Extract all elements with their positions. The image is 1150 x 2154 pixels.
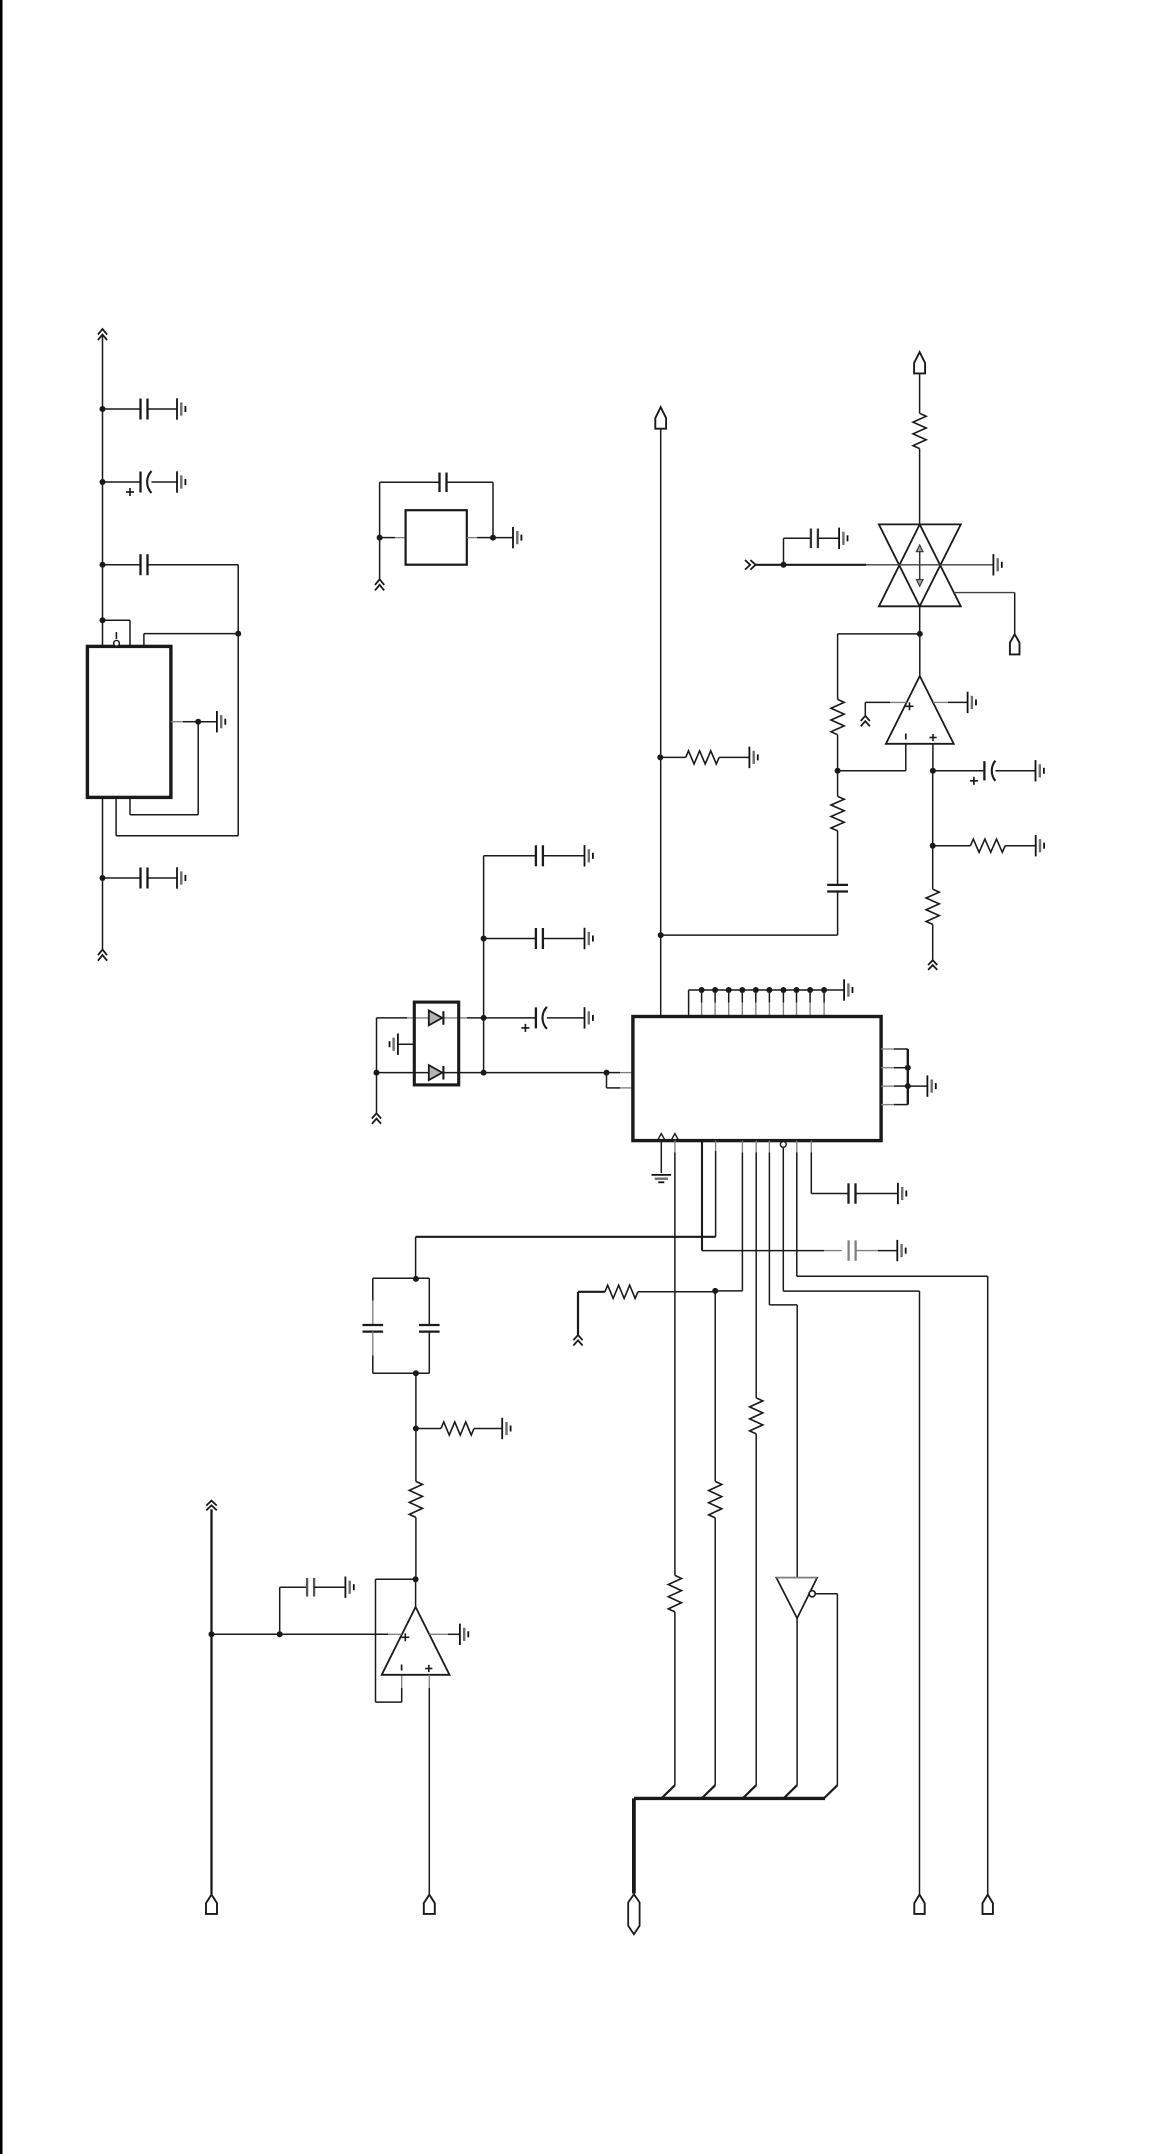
junction node top pin net (658, 932, 664, 938)
wire U1 pin3 stub (143, 634, 145, 647)
wire U3 right pin 4 (881, 1104, 894, 1106)
wire U3 right pin 3 (881, 1085, 894, 1087)
ground right of X1 (993, 554, 1001, 575)
wire bracket to ground (908, 1085, 928, 1087)
wire U3 top pin 3 (714, 990, 716, 1003)
U1 inverted pin tick (115, 632, 117, 639)
bus entry slant 1 (661, 1785, 675, 1798)
junction node C11 (481, 1015, 487, 1021)
capacitor C11 electrolytic (521, 1007, 547, 1032)
junction node Y1 left (377, 535, 383, 541)
wire Y1 feedback top right (447, 481, 494, 483)
junction node R4 tap (930, 843, 936, 849)
wire U4 apex down (796, 1618, 798, 1785)
resistor R4 (970, 839, 1005, 852)
junction node U3 left pins (604, 1070, 610, 1076)
junction node Y1 right (490, 535, 496, 541)
wire U3 bottom pin6 (755, 1141, 757, 1153)
resistor R10 (709, 1481, 722, 1518)
wire C6 branch (783, 538, 785, 565)
junction node bus pin 10 (807, 987, 813, 993)
wire U2 plus down (932, 771, 934, 846)
wire C11 lead (484, 1017, 536, 1019)
ground at C11 (585, 1007, 593, 1028)
wire R8 to bus (674, 1612, 676, 1785)
wire R11 to bus (755, 1434, 757, 1785)
ground below U3 pin1 (652, 1175, 672, 1182)
wire C4 to ground (148, 877, 178, 879)
port flag P2 (1010, 634, 1020, 654)
capacitor C4 (141, 868, 148, 889)
wire C10 to ground (543, 938, 585, 940)
wire X1 lower right output (954, 592, 1015, 594)
ground at U3 top bus (844, 979, 852, 1000)
wire U4 bubble out (816, 1593, 838, 1595)
wire C12 to ground (856, 1193, 898, 1195)
wire R9 lead right (638, 1291, 715, 1293)
wire U3 top pin 6 (755, 990, 757, 1003)
junction node R2-R3 (835, 768, 841, 774)
wire U3 bottom pin1 (660, 1141, 662, 1173)
capacitor C10 (536, 928, 543, 949)
wire C11 to ground (547, 1017, 585, 1019)
wire R7 to U5 out (415, 1517, 417, 1579)
bus entry slant 5 (824, 1785, 838, 1798)
ground at U2 (968, 692, 976, 713)
wire C6 to ground (818, 537, 839, 539)
capacitor C2 electrolytic (126, 471, 152, 496)
wire C3 to right vertical (148, 564, 239, 566)
wire DP1 left vertical (376, 1018, 378, 1113)
wire D1 anode lead (377, 1017, 408, 1019)
capacitor C13 (849, 1240, 856, 1260)
wire U1 inner loop (197, 722, 199, 815)
wire right vertical of U1 loop (237, 565, 239, 836)
junction node capbank top (413, 1276, 419, 1282)
resistor R5 (926, 889, 939, 924)
wire lower rail (210, 1509, 212, 1894)
wire R4 lead (933, 845, 971, 847)
wire R5 down (932, 924, 934, 959)
bus thick horizontal (634, 1797, 825, 1800)
wire U3 top pin 7 (768, 990, 770, 1003)
wire U3 top pin 8 (782, 990, 784, 1003)
wire U3 bottom pin5 (741, 1141, 743, 1153)
capacitor C15 right (419, 1325, 440, 1332)
capacitor C3 (141, 554, 148, 575)
ground at C1 (177, 398, 185, 419)
wire capbank right branch upper (428, 1278, 430, 1325)
wire U3 top pin 2 (701, 990, 703, 1003)
power flag chevron at R9 (573, 1335, 582, 1346)
U3 clock pin mark 2 (671, 1134, 678, 1140)
resistor R12 (686, 751, 719, 764)
wire left rail lower (102, 797, 104, 949)
wire C9 lead (484, 855, 536, 857)
wire U3 top pin 5 (741, 990, 743, 1003)
resistor R7 (409, 1481, 422, 1517)
wire Y1 right lead (467, 537, 477, 539)
resistor R6 (441, 1422, 474, 1435)
wire C13 to ground (856, 1250, 878, 1252)
wire left rail upper (102, 335, 104, 646)
wire U3 top pin 4 (728, 990, 730, 1003)
wire U3 top bus (689, 989, 845, 991)
power flag chevron below DP1 (372, 1113, 381, 1124)
bus entry slant 3 (743, 1785, 757, 1798)
wire U2 inverting input (905, 744, 907, 771)
wire node to R2 top (838, 633, 920, 635)
wire U3 right bracket (907, 1049, 909, 1105)
wire U2 V+ down (864, 702, 866, 715)
wire pin7 jog down (796, 1305, 798, 1578)
resistor R2 (831, 699, 844, 734)
wire capbank right branch lower (428, 1332, 430, 1374)
wire U3 bottom pin8 (782, 1147, 784, 1291)
junction node D2 out (481, 1070, 487, 1076)
inverter U4 (776, 1578, 817, 1619)
wire U1 right pin to ground (198, 721, 217, 723)
junction node U5 output (413, 1576, 419, 1582)
wire C1 to ground (148, 408, 178, 410)
wire U2 V+ pin (865, 701, 890, 703)
wire capbank to R6 node (415, 1373, 417, 1428)
port flag P8 (424, 1895, 435, 1914)
wire U3 bottom pin9 (796, 1141, 798, 1153)
wire tap to R5 (932, 846, 934, 890)
wire U1 pin2 jog (103, 619, 131, 621)
junction node C16 tap (277, 1631, 283, 1637)
power flag chevron below Y1 (375, 579, 384, 590)
op-amp U2 (886, 676, 954, 744)
wire U5 feedback (376, 1578, 416, 1580)
wire pin3 to C13 (702, 1250, 824, 1252)
junction node bus pin 3 (712, 987, 718, 993)
wire capbank bottom rail (373, 1372, 430, 1374)
wire capbank left branch lower (372, 1332, 374, 1356)
junction node R6 tap (413, 1426, 419, 1432)
junction node R12 tap (657, 754, 663, 760)
port flag P1 top (914, 352, 925, 373)
wire C2 to ground (152, 481, 178, 483)
wire Y1 left vertical (379, 482, 381, 579)
ground at C4 (177, 867, 185, 888)
wire U3 top pin 11 (823, 990, 825, 1003)
wire C3 lead (103, 564, 141, 566)
ground at C10 (585, 928, 593, 949)
bus entry slant 4 (784, 1785, 798, 1798)
wire Y1 right to ground (493, 537, 513, 539)
power flag chevron bottom of left rail (98, 950, 107, 961)
wire U3 bottom pin8 bubble (780, 1142, 786, 1148)
X1 arrow head up (916, 545, 923, 552)
wire C1 lead (103, 408, 141, 410)
wire R9 tap down (714, 1291, 716, 1482)
ground at Y1 (513, 527, 521, 548)
U4 bubble (809, 1591, 815, 1597)
wire R12 lead (660, 756, 685, 758)
wire capbank top rail (373, 1277, 430, 1279)
junction node rail-C3 (100, 562, 106, 568)
wire U3 bottom pin4 (715, 1141, 717, 1151)
wire U2 V- pin to ground (933, 701, 948, 703)
page left border line (0, 0, 3, 2154)
wire Y1 left lead (380, 537, 395, 539)
wire U3 bottom pin10 (810, 1141, 812, 1153)
transducer X1 triangle down (879, 524, 961, 606)
wire U3 bottom pin7 (768, 1141, 770, 1153)
IC U3 body (633, 1017, 881, 1141)
wire capbank left branch upper (372, 1278, 374, 1301)
junction node rail-U5 (209, 1631, 215, 1637)
ground at C13 (897, 1240, 905, 1261)
capacitor C9 (536, 845, 543, 866)
junction node U1 right pin (195, 719, 201, 725)
port flag P3 (655, 407, 666, 429)
junction node bus pin 4 (726, 987, 732, 993)
wire U2 output (919, 634, 921, 676)
ground at C6 (839, 528, 847, 549)
capacitor C5 feedback (440, 473, 447, 493)
wire IN1 thick (756, 564, 866, 566)
ground at C12 (898, 1183, 906, 1204)
wire U3 left pin2 (607, 1087, 621, 1089)
wire R3 to C8 (837, 831, 839, 885)
wire D1 cathode lead (444, 1017, 467, 1019)
wire U3 top pin 10 (809, 990, 811, 1003)
wire C7 lead (933, 770, 985, 772)
ground at C16 (345, 1577, 353, 1598)
U3 clock pin mark 1 (658, 1134, 665, 1140)
wire D2 anode lead (377, 1072, 429, 1074)
wire D2 cathode lead (444, 1072, 483, 1074)
input chevron IN1 (745, 560, 756, 570)
power flag chevron top of left rail (98, 329, 107, 340)
wire C16 to ground (314, 1586, 345, 1588)
junction node bus pin 6 (753, 987, 759, 993)
wire R12 to ground (719, 756, 749, 758)
junction node IN1-C6 (781, 562, 787, 568)
wire C4 lead (103, 877, 141, 879)
ground at C2 (177, 471, 185, 492)
ground at U1 right pin (217, 711, 225, 732)
transducer X1 triangle up (879, 524, 961, 606)
capacitor C14 left (363, 1325, 384, 1332)
wire node2 to R3 (837, 771, 839, 797)
wire D2 to U3 (484, 1072, 607, 1074)
wire U5 noninverting input down (428, 1675, 430, 1688)
ground at DP1 left (390, 1034, 398, 1055)
wire C7 to ground (995, 770, 1035, 772)
junction node rail-C1 (100, 406, 106, 412)
op-amp U5 (382, 1607, 450, 1675)
capacitor C8 (827, 885, 848, 892)
capacitor C7 electrolytic (970, 761, 996, 785)
resistor R3 (831, 796, 844, 831)
wire P3 to U3 top pin (660, 429, 662, 1017)
wire U3 left pin1 (607, 1072, 621, 1074)
power flag chevron at U2 (861, 716, 870, 727)
wire U1 outer loop (116, 835, 238, 837)
wire R1 to X1 (919, 449, 921, 525)
wire U3 top pin 9 (796, 990, 798, 1003)
X1 arrow head down (916, 580, 923, 587)
X1 arrow shaft (919, 548, 921, 584)
bus connector flag P6 (628, 1894, 639, 1934)
junction node U1 pin3 net (235, 631, 241, 637)
junction node rail-C4 (100, 875, 106, 881)
wire U3 left bracket (606, 1073, 608, 1088)
wire R4 to ground (1005, 845, 1035, 847)
junction node bus pin 8 (780, 987, 786, 993)
junction node rail-C2 (100, 479, 106, 485)
wire U5 output to apex (415, 1579, 417, 1607)
wire R9 lead left (578, 1291, 605, 1293)
wire U5 V- pin to ground (429, 1633, 448, 1635)
ground at R6 (502, 1418, 510, 1439)
wire C16 branch (279, 1587, 281, 1634)
power flag chevron lower rail (206, 1501, 217, 1511)
resistor R11 (750, 1398, 763, 1434)
wire Y1 feedback top left (380, 481, 440, 483)
resistor R8 (668, 1575, 681, 1612)
port flag P4 (914, 1895, 924, 1914)
capacitor C1 (141, 399, 148, 420)
wire thick net to left (416, 1236, 716, 1238)
capacitor C16 (307, 1578, 314, 1597)
wire thick net corner down (415, 1237, 417, 1279)
wire C10 lead (484, 938, 536, 940)
bus thick vertical (632, 1798, 636, 1893)
power flag chevron below R5 (928, 960, 937, 970)
wire U3 bottom pin2 long (674, 1141, 676, 1153)
wire node to R7 (415, 1429, 417, 1482)
wire R2 to node2 (837, 735, 839, 771)
junction node rail-U1 pin2 (100, 617, 106, 623)
wire U5 V+ pin (212, 1633, 389, 1635)
U4 top edge shade (776, 1577, 817, 1579)
junction node R9 tap (712, 1288, 718, 1294)
bus entry slant 2 (702, 1785, 716, 1798)
wire R6 lead (416, 1428, 441, 1430)
wire C9 to ground (543, 855, 585, 857)
junction node capbank bottom (413, 1370, 419, 1376)
capacitor C6 (811, 529, 818, 549)
junction node X1 out (917, 631, 923, 637)
capacitor C12 (849, 1183, 856, 1203)
junction node bus pin 11 (821, 987, 827, 993)
wire U2 noninverting input (932, 744, 934, 771)
junction node U2 plus (930, 768, 936, 774)
wire R10 to bus (714, 1518, 716, 1785)
wire U1 pin3 horizontal (144, 633, 238, 635)
diode pack DP1 body (414, 1002, 458, 1085)
ground at R4 (1036, 835, 1044, 856)
resistor R9 (605, 1285, 638, 1298)
wire C2 lead (103, 481, 141, 483)
wire U3 bottom pin3 thick (701, 1141, 703, 1251)
junction node bus pin 5 (739, 987, 745, 993)
wire P1 to R1 (919, 373, 921, 413)
junction node right bracket b (905, 1083, 911, 1089)
ground at C9 (585, 845, 593, 866)
diode D2 (429, 1065, 442, 1080)
wire U1 right pin (171, 721, 183, 723)
port flag P5 (983, 1895, 993, 1914)
ground at U3 right (927, 1075, 935, 1096)
wire U3 right pin 1 (881, 1048, 894, 1050)
junction node bus pin 2 (699, 987, 705, 993)
ground at R12 (749, 747, 757, 768)
junction node bus pin 7 (766, 987, 772, 993)
U1 inverted pin bubble (114, 640, 120, 646)
junction node DP1 left (374, 1070, 380, 1076)
wire DP1 ground lead (398, 1043, 414, 1045)
wire C8 down and left (837, 892, 839, 936)
wire U3 right pin 2 (881, 1067, 894, 1069)
wire R6 to ground (474, 1428, 502, 1430)
wire X1 bottom to node (919, 606, 921, 634)
ground at C7 (1036, 760, 1044, 781)
port flag P7 (206, 1895, 217, 1914)
diode D1 (429, 1010, 442, 1025)
oscillator Y1 body (406, 510, 467, 565)
junction node bus pin 9 (794, 987, 800, 993)
ground at U5 (460, 1624, 468, 1645)
wire through X1 to ground (866, 564, 993, 566)
resistor R1 (913, 413, 926, 448)
junction node right bracket a (905, 1065, 911, 1071)
regulator U1 body (87, 646, 170, 797)
wire cap bus vertical (483, 856, 485, 1073)
junction node C10 (481, 936, 487, 942)
